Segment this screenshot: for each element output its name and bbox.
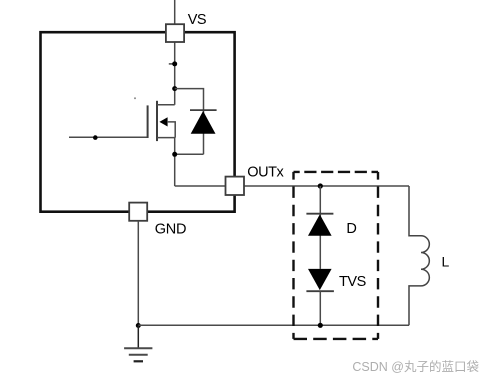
wire snubber vertical top: [319, 186, 321, 269]
wire bottom return: [138, 324, 409, 326]
ground symbol: [124, 326, 152, 362]
diode D triangle: [308, 214, 332, 235]
pad VS: [166, 24, 184, 42]
body diode triangle: [191, 111, 216, 134]
diode TVS cathode bar: [306, 290, 334, 292]
node stub left of junction: [169, 63, 175, 65]
IC box U1 outline: [41, 32, 235, 212]
inductor L coil: [421, 236, 429, 286]
inductor L bottom stub: [409, 286, 421, 325]
wire OUTx from source node to pad: [175, 185, 226, 187]
dashed snubber box: [294, 172, 379, 339]
pad OUTx: [226, 177, 245, 195]
wire VS supply from top edge: [174, 0, 176, 24]
svg-text:CSDN @丸子的蓝口袋: CSDN @丸子的蓝口袋: [352, 359, 479, 374]
diode TVS triangle: [308, 269, 332, 290]
inductor L loop wires: [409, 186, 421, 236]
body diode cathode bar: [190, 109, 217, 111]
wire body-diode bottom branch: [175, 153, 204, 155]
node junction dot (snubber bottom): [318, 323, 323, 328]
wire OUTx pad to inductor: [244, 185, 409, 187]
transistor Q1 drain stub: [157, 104, 175, 106]
wire snubber vertical bottom: [319, 291, 321, 325]
svg-text:TVS: TVS: [339, 274, 366, 290]
pad GND: [129, 203, 147, 221]
diode D cathode bar: [306, 213, 333, 215]
wire body to source: [168, 122, 175, 138]
transistor Q1 body arrow: [159, 117, 167, 126]
svg-text:D: D: [346, 221, 356, 237]
transistor Q1 gate plate: [147, 105, 149, 138]
svg-text:GND: GND: [155, 221, 186, 237]
transistor Q1 source stub: [157, 137, 175, 139]
wire source down to OUT node: [174, 138, 176, 186]
wire GND pad down: [137, 221, 139, 326]
node junction dot (source / body-diode): [172, 152, 177, 157]
node junction dot (OUTx / snubber top): [318, 183, 323, 188]
svg-text:L: L: [442, 253, 450, 269]
gate wire half-dot: [93, 135, 98, 140]
node ground junction dot: [136, 323, 141, 328]
stray speck: [134, 97, 136, 99]
svg-text:VS: VS: [188, 12, 206, 28]
node junction dot (VS internal): [172, 61, 177, 66]
svg-text:OUTx: OUTx: [247, 165, 284, 181]
node junction dot (drain / body-diode tap): [172, 86, 177, 91]
wire body-diode top branch: [175, 89, 204, 155]
transistor Q1 gate wire: [69, 136, 148, 138]
transistor Q1 channel line: [156, 101, 158, 141]
wire VS pad to internal node: [174, 42, 176, 105]
